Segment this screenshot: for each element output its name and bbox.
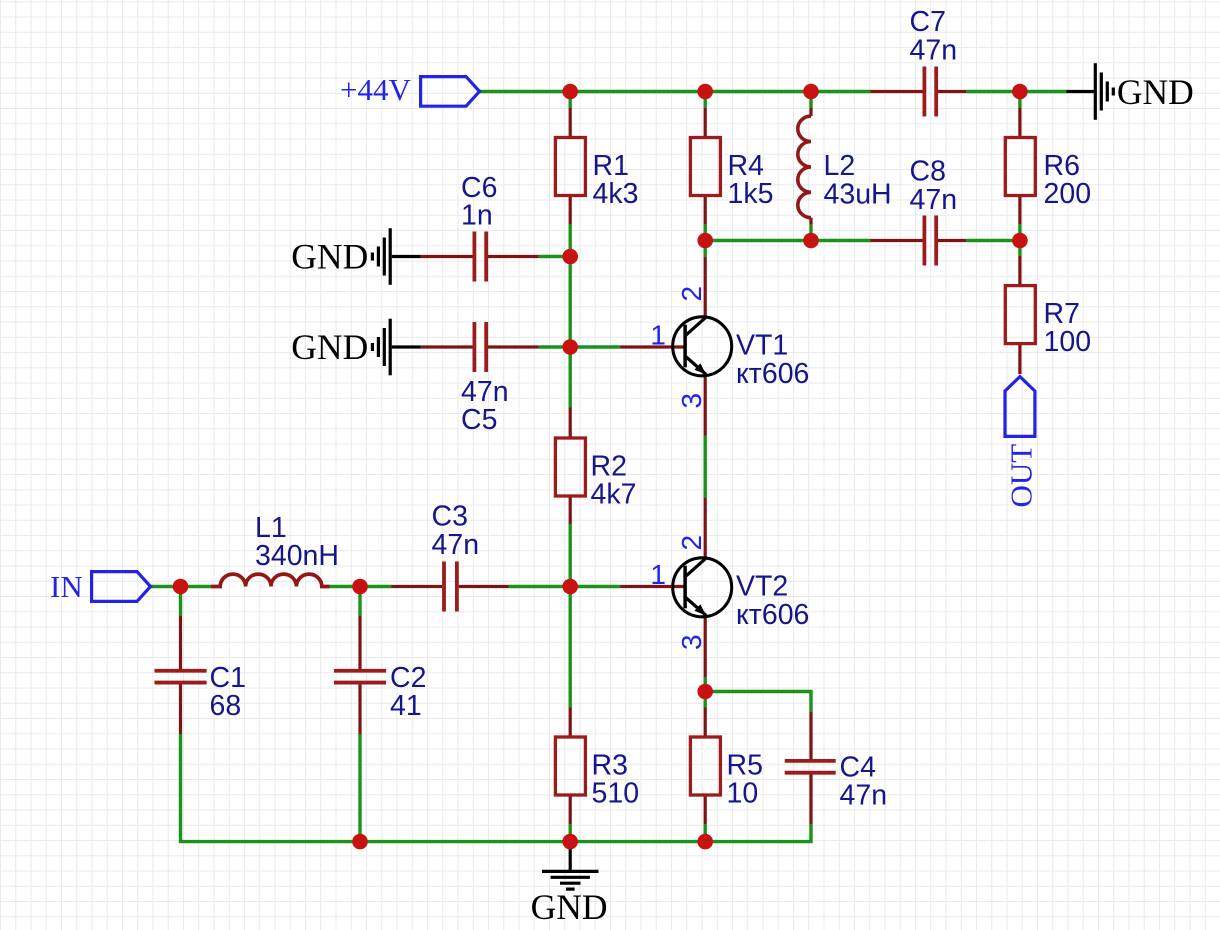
resistor R6 pins [1018,108,1021,224]
svg-text:510: 510 [592,778,640,810]
wire R4 bottom to VT1 collector [704,224,707,257]
resistor R6 [1005,138,1035,196]
svg-text:100: 100 [1044,326,1092,358]
svg-text:2: 2 [676,535,707,551]
svg-text:C7: C7 [910,6,946,38]
svg-text:2: 2 [676,286,707,302]
net flag +44V [421,77,480,107]
transistor VT1 collector pin [704,257,707,318]
resistor R5 [690,737,720,795]
wire R5 bottom stub [704,824,707,842]
svg-text:10: 10 [727,778,759,810]
wire C8 to R6/R7 node [966,239,1020,242]
capacitor C3 plates [444,562,457,612]
wire C2 bottom stub [358,734,361,842]
resistor R4 pins [704,108,707,224]
capacitor C2 plates [334,671,386,683]
inductor L2 pins [809,108,812,225]
junction dot ground rail R3 [562,834,578,850]
svg-text:47n: 47n [840,779,888,811]
wire IN flag to L1 [151,585,212,588]
junction dot VT2 emitter/R5 [697,684,713,700]
svg-text:3: 3 [676,393,707,409]
wire C1 top stub [179,587,182,617]
capacitor C4 plates [785,761,836,773]
wire L1 to C3 [330,585,392,588]
wire R6 top stub [1018,92,1021,109]
wire L2 bottom stub [809,225,812,241]
wire VT1 emitter to VT2 collector [704,436,707,499]
svg-text:47n: 47n [910,34,958,66]
capacitor C1 pins [179,616,182,734]
svg-text:200: 200 [1044,178,1092,210]
wire C6 right stub [539,255,571,258]
wire net +44V top rail left [480,90,871,93]
transistor VT2 [673,558,732,617]
resistor R2 pins [569,408,572,525]
svg-text:GND: GND [531,887,608,927]
junction dot top rail R6 [1012,84,1028,100]
svg-text:43uH: 43uH [824,178,892,210]
resistor R1 pins [569,108,572,224]
svg-text:47n: 47n [432,529,480,561]
wire R2 bottom to R3 top column [569,524,572,708]
svg-text:кт606: кт606 [736,599,809,631]
capacitor C3 pins [392,585,509,588]
svg-text:4k7: 4k7 [591,479,637,511]
wire R1 top stub [569,92,572,109]
wire C1 bottom + ground rail + C4 bottom [181,734,812,842]
svg-text:IN: IN [50,569,83,604]
svg-text:47n: 47n [461,376,509,408]
svg-text:+44V: +44V [340,72,411,107]
svg-text:L1: L1 [255,512,287,544]
svg-text:3: 3 [676,634,707,650]
svg-text:кт606: кт606 [736,358,809,390]
ground symbol left upper (C6) [372,228,420,285]
junction dot ground rail R5 [697,834,713,850]
junction dot IN/C1 [173,579,189,595]
capacitor C4 pins [809,712,812,824]
transistor VT2 emitter pin [704,616,707,678]
junction dot top rail R4 [697,84,713,100]
wire VT2 emitter stub [704,677,707,692]
net flag IN [92,572,151,602]
svg-text:68: 68 [210,690,242,722]
transistor VT1 [673,317,732,376]
svg-text:47n: 47n [910,184,958,216]
capacitor C8 pins [871,239,967,242]
wire C3 to VT2 base node [509,585,621,588]
resistor R4 [690,138,720,196]
svg-text:VT2: VT2 [736,571,788,603]
svg-text:4k3: 4k3 [593,178,639,210]
capacitor C2 pins [358,616,361,734]
resistor R3 pins [569,708,572,825]
wire R5 top stub [704,692,707,708]
svg-text:1k5: 1k5 [728,178,774,210]
svg-text:L2: L2 [824,150,856,182]
transistor VT1 emitter pin [704,375,707,436]
wire C2 top stub [358,587,361,617]
capacitor C7 plates [924,67,936,117]
svg-text:C3: C3 [432,500,468,532]
wire R1 bottom to R2 top column [569,224,572,408]
junction dot L1/C2 [352,579,368,595]
svg-text:VT1: VT1 [736,330,788,362]
resistor R7 pins [1018,256,1021,374]
svg-text:GND: GND [1117,72,1194,112]
junction dot top rail R1 [562,84,578,100]
svg-text:1: 1 [650,320,666,351]
resistor R3 [555,737,585,795]
svg-text:GND: GND [291,236,368,276]
ground symbol left lower (C5) [372,319,420,376]
transistor VT1 base pin [621,345,684,348]
wire R4 top stub [704,92,707,109]
capacitor C6 plates [474,232,486,282]
resistor R2 [555,438,585,496]
svg-text:1: 1 [650,559,666,590]
capacitor C8 plates [924,216,936,266]
transistor VT2 collector pin [704,498,707,559]
svg-text:41: 41 [390,690,422,722]
capacitor C1 plates [155,671,207,683]
capacitor C7 pins [871,90,967,93]
transistor VT2 base pin [621,585,684,588]
junction dot rail2 R6/R7 [1012,233,1028,249]
resistor R7 [1005,286,1035,344]
junction dot rail2 VT1 collector [697,233,713,249]
svg-text:340nH: 340nH [255,540,339,572]
junction dot C6 node [562,249,578,265]
junction dot C3/R2/VT2 base [562,579,578,595]
wire net +44V top rail right [966,90,1067,93]
resistor R5 pins [704,708,707,825]
wire VT1 base stub [570,345,620,348]
wire VT2 emitter to C4 top [705,692,811,713]
resistor R1 [555,138,585,196]
wire L2 top stub [809,92,812,109]
net flag OUT [1005,377,1035,437]
junction dot ground rail C2 [352,834,368,850]
capacitor C5 pins [421,345,539,348]
inductor L1 [211,574,330,586]
svg-text:1n: 1n [461,199,493,231]
capacitor C5 plates [474,322,486,372]
wire C5 right stub [539,345,571,348]
junction dot top rail L2 [803,84,819,100]
svg-text:GND: GND [291,327,368,367]
wire VT1 collector rail y=240 [705,239,870,242]
svg-text:OUT: OUT [1004,444,1039,508]
junction dot rail2 L2 [803,233,819,249]
inductor L2 [798,116,811,218]
svg-text:C5: C5 [461,404,497,436]
capacitor C6 pins [421,255,539,258]
ground symbol bottom [542,842,599,890]
wire R6 bottom to R7 top [1018,224,1021,256]
wire R3 bottom stub [569,824,572,842]
svg-text:C8: C8 [910,156,946,188]
junction dot C5/VT1 base node [562,339,578,355]
ground symbol right [1067,63,1114,120]
